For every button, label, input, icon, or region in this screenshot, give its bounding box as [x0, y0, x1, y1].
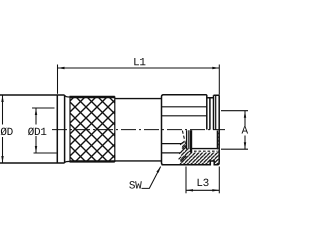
thread relief edge	[190, 130, 192, 152]
OD1 arrow top	[35, 108, 37, 115]
OD1 ext top	[32, 107, 55, 109]
L3 ext right	[218, 167, 220, 194]
body: left cylinder	[0, 95, 65, 163]
section hatch wedge left	[180, 140, 191, 165]
fillet top	[65, 95, 70, 97]
section hatch chamfer slab	[217, 131, 219, 148]
hex right edge	[206, 95, 208, 130]
SW leader	[142, 167, 161, 189]
label A	[242, 126, 249, 133]
hex left edge	[162, 95, 164, 165]
L3 arrow left	[186, 189, 193, 191]
washer seam	[215, 95, 217, 129]
knurl sleeve	[70, 97, 115, 161]
section ragged edge ticks	[179, 142, 183, 159]
hex flat line lower2	[162, 152, 181, 154]
end flange	[214, 95, 220, 129]
knurl top edge	[70, 96, 115, 98]
hidden cone dashed	[182, 131, 186, 149]
right face	[218, 95, 220, 163]
bore end face	[187, 130, 189, 149]
L1 ext left	[57, 65, 59, 94]
L1 ext right	[218, 65, 220, 95]
OD1 arrow bottom	[35, 146, 37, 153]
hex flat line lower1	[162, 143, 182, 145]
OD1 ext bottom	[34, 152, 57, 154]
L3 arrow right	[212, 189, 219, 191]
label L3	[198, 179, 209, 186]
knurl bottom edge	[70, 160, 115, 162]
dim L3 line	[186, 189, 219, 191]
thread dashed line	[190, 150, 218, 152]
dim OD1 line	[35, 108, 37, 153]
wedge extra hatch strokes	[181, 145, 187, 161]
A arrow bottom	[244, 142, 246, 149]
L1 arrow left	[58, 67, 65, 69]
dim OD line	[2, 95, 4, 163]
A arrow top	[244, 111, 246, 118]
L1 arrow right	[212, 67, 219, 69]
centerline	[52, 129, 225, 131]
label OD1	[28, 128, 46, 136]
hex flat line upper1	[162, 106, 207, 108]
bore chamfer edge	[216, 131, 218, 149]
SW arrow	[156, 166, 161, 173]
A ext bottom	[221, 148, 248, 150]
collar ring	[57, 95, 64, 163]
dim L1 line	[58, 67, 220, 69]
dim A line	[244, 111, 246, 150]
groove	[207, 98, 214, 130]
OD arrow bottom	[1, 156, 3, 163]
A ext top	[221, 110, 248, 112]
section hatch main	[190, 148, 219, 164]
label OD	[1, 128, 13, 136]
OD arrow top	[1, 95, 3, 102]
label L1	[134, 58, 145, 65]
hex top edge	[163, 94, 207, 96]
hex flat line upper2	[162, 115, 207, 117]
bore bottom wall	[190, 148, 217, 150]
sleeve rear cylinder	[115, 99, 162, 161]
label SW	[129, 181, 141, 188]
fillet bottom	[65, 161, 70, 162]
L3 ext left	[185, 167, 187, 194]
bottom profile with groove notch	[162, 161, 220, 165]
